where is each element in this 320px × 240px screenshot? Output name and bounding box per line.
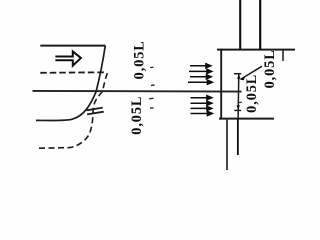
svg-text:0,05L: 0,05L [244,74,260,113]
svg-text:0,05L: 0,05L [131,40,147,79]
svg-text:0,05L: 0,05L [262,49,278,88]
svg-text:0,05L: 0,05L [129,96,145,135]
